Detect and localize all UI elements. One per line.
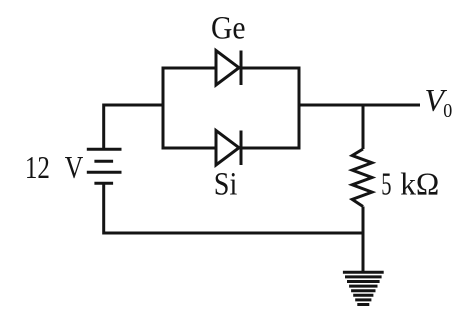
svg-text:12: 12 [25, 150, 50, 185]
svg-text:V: V [65, 150, 84, 185]
svg-text:5: 5 [381, 166, 391, 202]
svg-text:Si: Si [214, 166, 238, 202]
svg-text:kΩ: kΩ [400, 166, 439, 202]
svg-text:Ge: Ge [211, 11, 246, 47]
svg-text:0: 0 [443, 100, 452, 122]
